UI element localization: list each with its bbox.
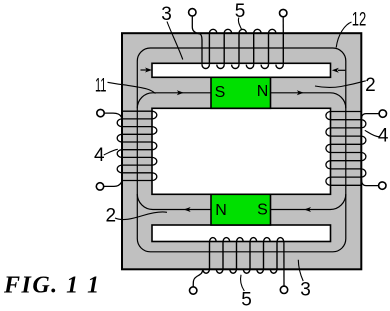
svg-text:N: N xyxy=(215,202,227,219)
arrow into top slot left xyxy=(141,68,153,73)
leader for label 5 bottom xyxy=(241,275,245,291)
coil bottom (winding 5) xyxy=(203,238,284,274)
leader for label 2 top-right xyxy=(315,81,366,88)
svg-text:N: N xyxy=(257,83,269,100)
wire lead right-top xyxy=(361,114,379,120)
terminal bottom-right xyxy=(280,286,287,293)
coil left (winding 4) xyxy=(117,111,157,180)
svg-text:3: 3 xyxy=(300,280,311,301)
leader for label 11 xyxy=(108,82,156,93)
terminal bottom-left xyxy=(190,287,197,294)
leader for label 4 left xyxy=(104,149,118,155)
svg-text:5: 5 xyxy=(241,289,252,306)
leader for label 3 top xyxy=(167,22,183,60)
coil right (winding 4) xyxy=(326,112,366,186)
flux branch bottom-left xyxy=(137,194,211,210)
terminal left-bottom xyxy=(96,183,103,190)
svg-text:S: S xyxy=(215,84,226,101)
magnet top xyxy=(211,77,271,108)
arrow top flux right (from N) xyxy=(297,90,304,95)
flux branch top-right xyxy=(271,93,346,109)
core outer body xyxy=(122,33,361,269)
magnet bottom xyxy=(211,194,271,225)
svg-text:2: 2 xyxy=(106,205,117,226)
leader for label 2 bottom-left xyxy=(115,212,167,220)
flux branch top-left xyxy=(137,93,211,109)
wire lead right-bottom xyxy=(361,177,378,186)
wire lead top-right xyxy=(282,17,284,33)
arrow bottom flux right (toward S) xyxy=(304,207,311,212)
svg-text:3: 3 xyxy=(161,4,172,25)
svg-text:2: 2 xyxy=(365,75,376,96)
terminal top-right xyxy=(280,9,287,16)
svg-text:12: 12 xyxy=(352,10,367,31)
leader for label 4 right xyxy=(365,130,380,137)
wire lead bottom-right xyxy=(283,242,285,286)
wire lead left-top xyxy=(104,113,122,119)
top slot (air gap) xyxy=(152,63,331,77)
leader for label 5 top xyxy=(238,18,241,31)
flux branch bottom-right xyxy=(271,194,346,210)
terminal right-top xyxy=(379,110,386,117)
leader for label 12 xyxy=(336,22,351,48)
svg-text:5: 5 xyxy=(235,1,246,22)
svg-text:11: 11 xyxy=(95,76,107,97)
wire lead bottom-left xyxy=(193,269,203,286)
arrow into top slot right xyxy=(332,68,346,73)
center window xyxy=(152,108,331,194)
leader for label 3 bottom-right xyxy=(298,260,303,281)
bottom slot (air gap) xyxy=(152,225,331,242)
arrow top flux left (toward S) xyxy=(177,90,184,95)
arrow bottom flux left (from N) xyxy=(184,207,191,212)
svg-text:4: 4 xyxy=(378,125,389,146)
svg-text:FIG. 1 1: FIG. 1 1 xyxy=(3,273,101,299)
flux loop main xyxy=(137,48,345,252)
wire lead top-left xyxy=(192,16,202,64)
svg-text:4: 4 xyxy=(94,145,105,166)
terminal top-left xyxy=(189,9,196,16)
terminal left-top xyxy=(97,109,104,116)
wire lead left-bottom xyxy=(104,181,122,187)
coil top (winding 5) xyxy=(202,29,283,68)
svg-text:S: S xyxy=(257,202,268,219)
terminal right-bottom xyxy=(379,182,386,189)
